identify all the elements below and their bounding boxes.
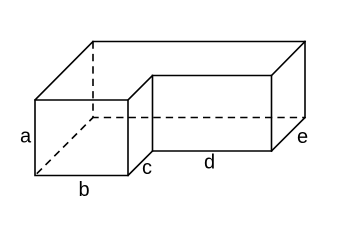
top-left depth edge <box>35 42 93 101</box>
hidden back-left vertical and back bottom edges <box>93 42 305 118</box>
right box front bottom edge d <box>153 150 272 152</box>
top-right depth edge <box>272 42 306 76</box>
svg-text:d: d <box>204 152 215 174</box>
step bottom depth edge <box>128 151 153 176</box>
right box front top edge <box>153 75 272 77</box>
hidden bottom-left depth edge <box>35 118 93 176</box>
svg-text:c: c <box>142 157 152 179</box>
step front vertical edge c <box>152 76 154 152</box>
right back vertical edge e <box>304 42 306 118</box>
left box front face <box>35 100 128 176</box>
svg-text:e: e <box>297 126 308 148</box>
bottom-right depth edge <box>272 118 306 152</box>
svg-text:a: a <box>20 126 32 148</box>
right box front-right vertical edge <box>271 76 273 152</box>
step top depth edge <box>128 76 153 101</box>
svg-text:b: b <box>78 179 89 201</box>
back top edge <box>93 41 305 43</box>
